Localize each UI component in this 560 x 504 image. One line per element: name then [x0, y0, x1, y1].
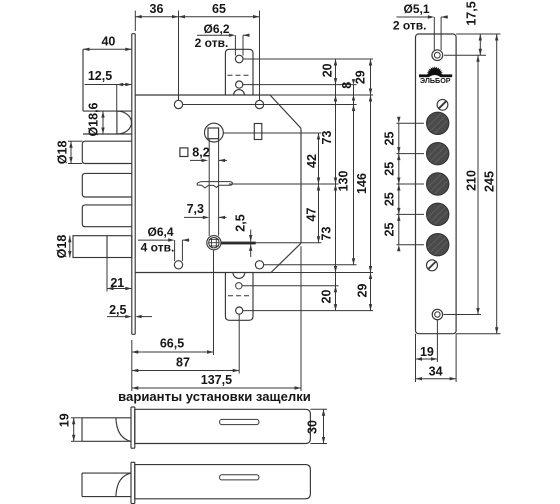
- svg-text:2,5: 2,5: [234, 214, 248, 231]
- svg-text:Ø18: Ø18: [55, 235, 69, 259]
- svg-text:87: 87: [176, 356, 190, 370]
- svg-text:19: 19: [58, 413, 72, 427]
- svg-text:30: 30: [306, 420, 320, 434]
- svg-text:Ø6,4: Ø6,4: [147, 225, 173, 239]
- svg-text:20: 20: [320, 290, 334, 304]
- svg-text:25: 25: [383, 132, 397, 146]
- svg-text:25: 25: [383, 192, 397, 206]
- svg-text:варианты установки защелки: варианты установки защелки: [118, 389, 311, 404]
- svg-text:40: 40: [101, 35, 115, 49]
- svg-text:36: 36: [150, 2, 164, 16]
- svg-text:42: 42: [305, 154, 319, 168]
- svg-text:12,5: 12,5: [88, 69, 112, 83]
- svg-text:146: 146: [355, 173, 369, 194]
- svg-text:66,5: 66,5: [160, 337, 184, 351]
- svg-text:Ø18,6: Ø18,6: [87, 102, 101, 136]
- svg-text:21: 21: [110, 276, 124, 290]
- svg-text:245: 245: [482, 171, 496, 192]
- svg-text:8: 8: [340, 82, 354, 89]
- svg-text:65: 65: [212, 2, 226, 16]
- svg-text:17,5: 17,5: [464, 1, 478, 25]
- svg-text:29: 29: [356, 284, 370, 298]
- svg-text:73: 73: [320, 131, 334, 145]
- svg-text:20: 20: [321, 63, 335, 77]
- svg-text:210: 210: [464, 170, 478, 191]
- svg-text:130: 130: [337, 171, 351, 192]
- svg-text:Ø6,2: Ø6,2: [203, 22, 229, 36]
- svg-text:7,3: 7,3: [187, 202, 204, 216]
- svg-text:2 отв.: 2 отв.: [393, 18, 427, 32]
- svg-text:73: 73: [320, 227, 334, 241]
- svg-text:25: 25: [383, 223, 397, 237]
- svg-text:ЭЛЬБОР: ЭЛЬБОР: [420, 76, 451, 85]
- svg-text:8,2: 8,2: [192, 145, 209, 159]
- svg-text:34: 34: [429, 365, 443, 379]
- svg-text:25: 25: [383, 162, 397, 176]
- svg-text:Ø18: Ø18: [56, 141, 70, 165]
- svg-text:47: 47: [305, 208, 319, 222]
- svg-text:4 отв.: 4 отв.: [141, 240, 175, 254]
- svg-text:Ø5,1: Ø5,1: [403, 2, 429, 16]
- svg-text:29: 29: [354, 70, 368, 84]
- svg-text:2,5: 2,5: [109, 303, 126, 317]
- svg-text:137,5: 137,5: [201, 373, 232, 387]
- svg-text:19: 19: [420, 345, 434, 359]
- svg-text:2 отв.: 2 отв.: [195, 36, 229, 50]
